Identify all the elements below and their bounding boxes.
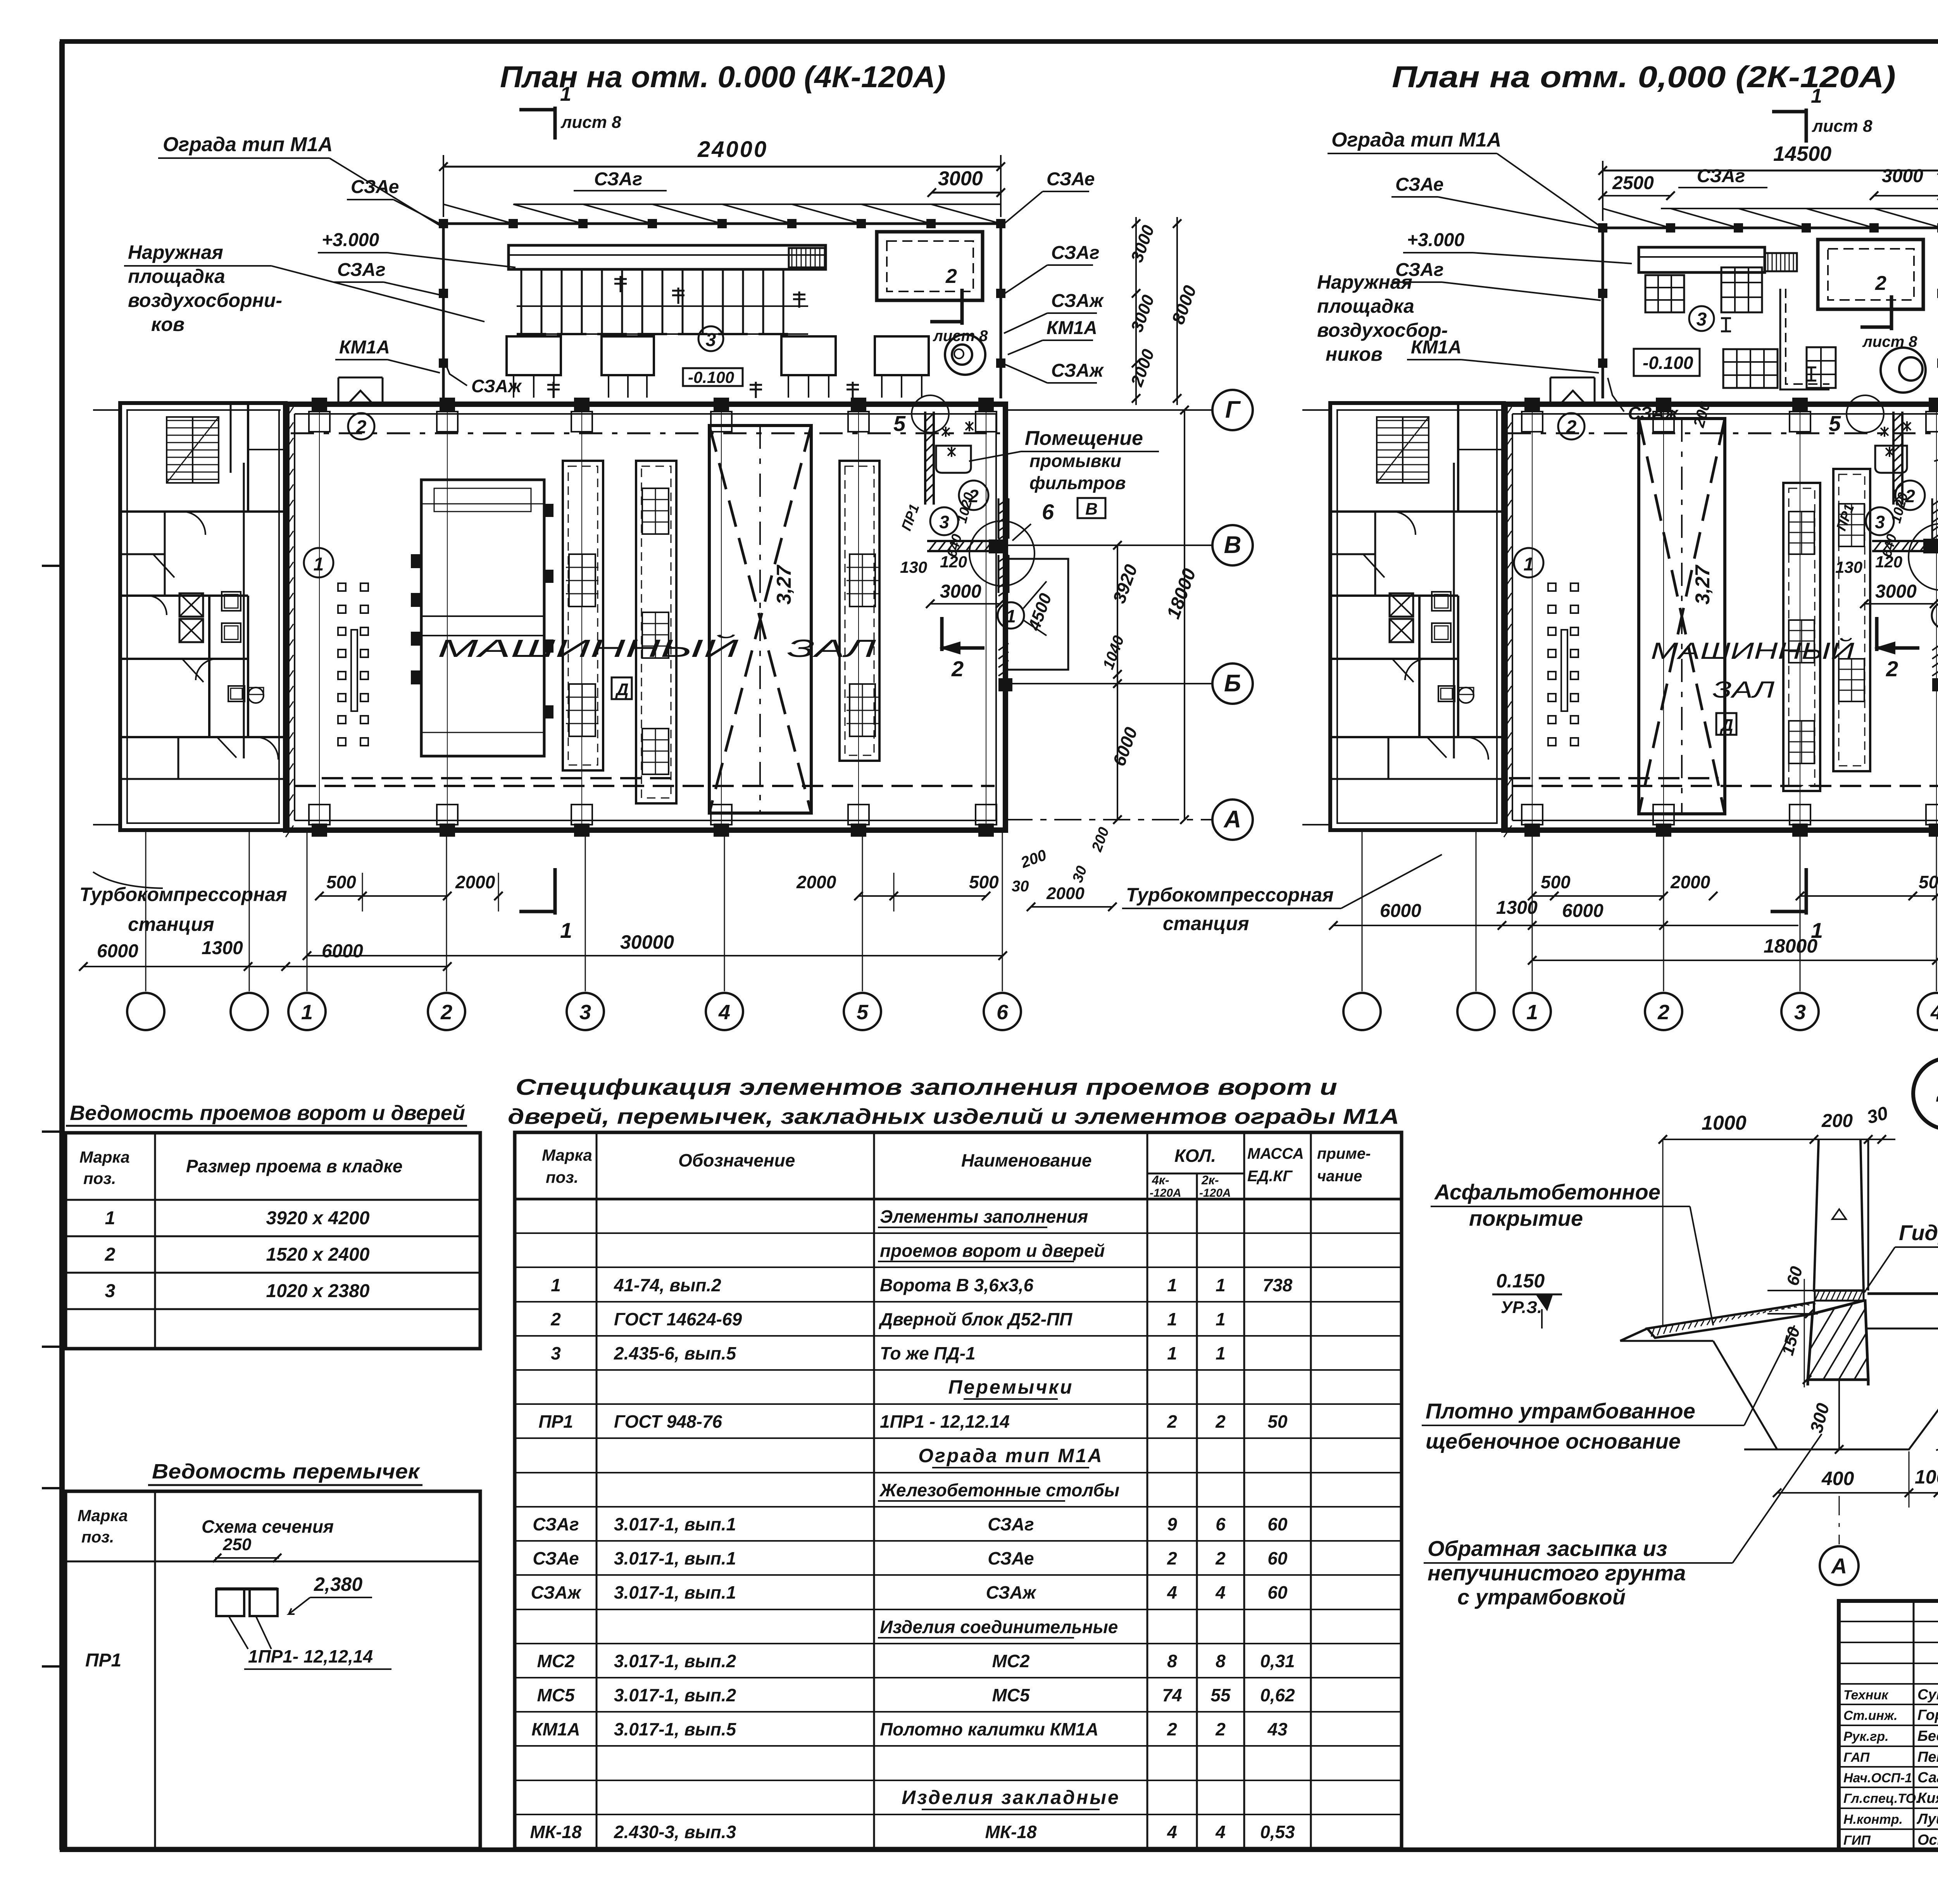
svg-text:А: А [1831,1554,1847,1578]
pilaster at B axis lower [998,678,1012,691]
svg-text:41-74, вып.2: 41-74, вып.2 [614,1275,721,1295]
fixtures plan2 [1432,592,1451,611]
svg-text:Наружная: Наружная [128,241,223,263]
svg-text:СЗАг: СЗАг [337,260,386,280]
axis letters [1005,409,1212,411]
letter D box [612,677,632,699]
svg-text:Изделия закладные: Изделия закладные [902,1787,1120,1808]
svg-text:3: 3 [105,1281,116,1301]
svg-text:КМ1А: КМ1А [339,337,390,358]
annex building plan2 [1330,403,1504,830]
annex stair [167,417,219,483]
bottom dim 30000 [307,955,1003,956]
svg-text:А: А [1223,806,1241,833]
svg-text:43: 43 [1267,1719,1288,1739]
svg-text:МС5: МС5 [992,1685,1030,1705]
turbo unit big block [421,480,544,756]
crossed reserve area [709,426,811,813]
svg-text:1: 1 [1524,554,1534,575]
svg-text:2: 2 [1215,1719,1226,1739]
svg-text:1: 1 [560,918,572,943]
vent boxes plan2 [1390,593,1413,617]
svg-text:1020 х 2380: 1020 х 2380 [266,1281,370,1301]
svg-text:400: 400 [1821,1468,1854,1489]
svg-text:4: 4 [1215,1582,1226,1602]
svg-text:2: 2 [1167,1548,1177,1568]
svg-text:60: 60 [1267,1582,1288,1602]
svg-text:3,27: 3,27 [1691,565,1714,605]
section mark 1 bottom plan2 [1805,868,1808,915]
svg-text:4: 4 [1167,1822,1177,1842]
svg-text:Помещение: Помещение [1025,427,1143,450]
svg-text:2: 2 [1215,1548,1226,1568]
svg-text:Ведомость перемычек: Ведомость перемычек [152,1460,421,1483]
svg-text:Размер проема в кладке: Размер проема в кладке [186,1156,402,1176]
svg-text:3: 3 [1794,1001,1806,1024]
axis circles bottom [145,830,147,991]
dim 3000 top [932,192,1001,194]
annex door arcs plan2 [1392,512,1416,535]
svg-text:Железобетонные столбы: Железобетонные столбы [879,1480,1119,1500]
anchor symbols [620,276,622,292]
svg-text:6: 6 [1042,500,1054,524]
fence posts and braces [514,203,1001,205]
svg-text:24000: 24000 [697,137,768,162]
svg-text:Изделия соединительные: Изделия соединительные [880,1617,1118,1637]
svg-text:6000: 6000 [322,941,363,961]
svg-text:6000: 6000 [97,941,138,961]
svg-text:3.017-1, вып.5: 3.017-1, вып.5 [614,1719,737,1739]
room markers plan2 [1558,413,1585,439]
svg-text:2: 2 [105,1244,116,1265]
small anchor chains [338,583,346,591]
svg-text:-120А: -120А [1199,1187,1231,1199]
sanitary fixtures [222,592,241,611]
detail callout 6 [969,521,1035,586]
svg-text:Гл.спец.ТО.: Гл.спец.ТО. [1843,1791,1919,1806]
svg-text:60: 60 [1267,1514,1288,1534]
section mark 2 top plan2 [1890,295,1893,330]
svg-text:4: 4 [1215,1822,1226,1842]
svg-text:3,27: 3,27 [773,565,795,605]
waffle grids plan2 [1645,275,1684,312]
svg-text:130: 130 [1835,558,1862,576]
svg-text:1: 1 [1167,1343,1177,1363]
entrance porch plan1 [338,377,340,404]
washing bottom wall plan2 [1872,540,1924,542]
svg-text:Перемычки: Перемычки [948,1376,1074,1398]
svg-text:3000: 3000 [1875,581,1917,602]
svg-text:6000: 6000 [1380,901,1421,921]
svg-text:5: 5 [893,411,906,436]
svg-text:1: 1 [314,554,324,575]
unit strip B [636,461,676,803]
svg-text:1: 1 [1811,918,1823,943]
svg-text:СЗАе: СЗАе [988,1548,1034,1568]
svg-text:станция: станция [1163,913,1249,934]
svg-text:-120А: -120А [1150,1187,1181,1199]
ramp d4 [1647,1302,1814,1338]
foundation block d4 [1808,1301,1868,1380]
table vedomost proemov [66,1101,480,1849]
detail 4 bubble [1913,1058,1938,1129]
svg-text:СЗАе: СЗАе [533,1548,579,1568]
svg-text:непучинистого грунта: непучинистого грунта [1428,1561,1686,1585]
right dims fence [1135,217,1137,405]
svg-text:Наружная: Наружная [1317,271,1412,293]
pos circle 1 plan2 [1932,602,1938,629]
svg-text:СЗАг: СЗАг [594,169,643,190]
svg-text:МК-18: МК-18 [985,1822,1036,1842]
ladder grid plan2 [1765,253,1797,271]
wall above d4 [1814,1139,1864,1291]
svg-text:Схема сечения: Схема сечения [202,1516,334,1537]
door swing slashes [153,554,174,577]
svg-text:2000: 2000 [455,872,495,892]
area marker 3 plan2 [1689,306,1714,331]
svg-text:Спецификация элементов заполн: Спецификация элементов заполнения проемо… [516,1075,1337,1100]
axis A circle d4 [1839,1496,1840,1544]
svg-text:Ограда тип М1А: Ограда тип М1А [918,1445,1103,1466]
svg-text:Горская: Горская [1917,1707,1938,1723]
svg-text:воздухосборни-: воздухосборни- [128,289,282,311]
svg-text:2: 2 [1657,1001,1669,1024]
svg-text:проемов ворот и дверей: проемов ворот и дверей [880,1241,1105,1261]
svg-text:Асфальтобетонное: Асфальтобетонное [1434,1180,1660,1204]
svg-text:МС2: МС2 [537,1651,575,1671]
svg-text:МС5: МС5 [537,1685,575,1705]
svg-text:Д: Д [615,680,629,699]
svg-text:4: 4 [718,1001,730,1024]
svg-text:Ст.инж.: Ст.инж. [1843,1708,1898,1723]
svg-text:50: 50 [1267,1411,1288,1432]
svg-text:2000: 2000 [796,872,836,892]
svg-text:6: 6 [997,1001,1009,1024]
svg-text:дверей, перемычек, закладных и: дверей, перемычек, закладных изделий и э… [508,1104,1399,1129]
svg-text:В: В [1224,532,1241,558]
svg-text:покрытие: покрытие [1469,1206,1583,1230]
svg-text:0,62: 0,62 [1260,1685,1295,1705]
svg-text:фильтров: фильтров [1029,473,1126,493]
svg-text:8: 8 [1216,1651,1226,1671]
manhole [945,334,985,375]
svg-text:2500: 2500 [1612,173,1654,193]
svg-text:Обозначение: Обозначение [678,1150,795,1170]
svg-text:2: 2 [1215,1411,1226,1432]
svg-text:3: 3 [551,1343,561,1363]
svg-text:55: 55 [1210,1685,1231,1705]
platform ladder grid [789,248,826,267]
svg-text:МАССА: МАССА [1247,1145,1304,1162]
bottom dims row1 [319,895,447,897]
svg-text:площадка: площадка [128,265,225,287]
fence corner room [877,232,983,300]
svg-text:2: 2 [1875,272,1886,295]
svg-text:Обратная засыпка из: Обратная засыпка из [1428,1536,1667,1561]
detail callout 6 plan2 [1909,524,1938,590]
svg-text:120: 120 [1875,553,1902,571]
hall axis dashed plan2 [1508,432,1938,434]
air collector platform plan2 [1639,247,1765,272]
svg-text:3920 х 4200: 3920 х 4200 [266,1208,370,1229]
svg-text:Элементы заполнения: Элементы заполнения [880,1206,1088,1227]
unit strip C [840,461,879,761]
detail callout 5 plan2 [1847,395,1884,432]
annex door arcs [182,512,205,535]
shared wall plan2 [1505,404,1508,830]
letter D box plan2 [1716,713,1736,735]
svg-text:2: 2 [1167,1719,1177,1739]
svg-text:Осташевский: Осташевский [1917,1832,1938,1848]
L dashed wall plan2 [1780,289,1829,389]
svg-text:Ворота В 3,6х3,6: Ворота В 3,6х3,6 [880,1275,1034,1295]
svg-text:МС2: МС2 [992,1651,1030,1671]
dim 14500 [1603,170,1938,172]
svg-text:250: 250 [222,1535,252,1554]
boxed B mark [1078,498,1105,518]
svg-text:ГИП: ГИП [1843,1833,1871,1848]
svg-text:Наименование: Наименование [961,1150,1092,1170]
svg-text:СЗАж: СЗАж [531,1582,582,1602]
svg-text:60: 60 [1267,1548,1288,1568]
plan2 top section mark 1 [1805,109,1808,143]
level -0.100 plan2 [1634,349,1700,376]
svg-text:1: 1 [1216,1275,1226,1295]
pilaster B axis plan2 [1932,498,1938,505]
svg-text:6: 6 [1216,1514,1226,1534]
specification table [508,1075,1402,1849]
svg-text:2: 2 [951,656,964,681]
svg-text:2.430-3, вып.3: 2.430-3, вып.3 [614,1822,736,1842]
washing wall plan2 [1892,412,1895,505]
svg-text:Турбокомпрессорная: Турбокомпрессорная [79,884,287,905]
svg-text:лист 8: лист 8 [560,113,621,132]
title block [1839,1601,1938,1850]
svg-text:18000: 18000 [1764,935,1817,957]
svg-text:поз.: поз. [81,1528,114,1546]
svg-text:2,380: 2,380 [314,1573,362,1595]
entrance porch plan2 [1550,377,1552,404]
svg-text:1: 1 [1526,1001,1538,1024]
fold marks [42,565,62,567]
svg-text:-0.100: -0.100 [1643,353,1693,373]
svg-text:30: 30 [1012,878,1029,895]
svg-text:Н.контр.: Н.контр. [1843,1812,1903,1827]
equipment bases [507,336,561,375]
svg-text:2000: 2000 [1670,872,1710,892]
svg-text:СЗАж: СЗАж [986,1582,1037,1602]
svg-text:То же ПД-1: То же ПД-1 [880,1343,976,1363]
svg-text:Полотно калитки КМ1А: Полотно калитки КМ1А [880,1719,1098,1739]
svg-text:1: 1 [560,83,571,105]
svg-text:МК-18: МК-18 [530,1822,581,1842]
svg-text:Турбокомпрессорная: Турбокомпрессорная [1126,884,1334,906]
svg-text:СЗАе: СЗАе [1047,169,1095,190]
svg-text:+3.000: +3.000 [322,230,379,250]
svg-text:с утрамбовкой: с утрамбовкой [1457,1585,1626,1609]
svg-text:1: 1 [301,1001,313,1024]
svg-text:2: 2 [1886,656,1898,681]
svg-text:+3.000: +3.000 [1407,230,1464,250]
svg-text:3: 3 [706,330,716,350]
pos circles 2 3 near washing [959,481,988,510]
svg-text:8: 8 [1167,1651,1177,1671]
plan1 top section mark 1 [553,107,557,140]
floor plan 2 (2K-120A) [1122,60,1938,1030]
svg-text:Ведомость проемов ворот и двер: Ведомость проемов ворот и дверей [70,1101,465,1125]
svg-text:ГОСТ 948-76: ГОСТ 948-76 [614,1411,722,1432]
svg-text:2: 2 [550,1309,561,1329]
svg-text:3.017-1, вып.2: 3.017-1, вып.2 [614,1685,736,1705]
svg-text:ЗАЛ: ЗАЛ [787,634,876,662]
shared wall annex/hall [287,404,290,830]
svg-text:3000: 3000 [940,581,981,602]
svg-text:СЗАж: СЗАж [1628,403,1679,423]
svg-text:Рук.гр.: Рук.гр. [1843,1729,1889,1744]
annex corridor plan2 [1453,463,1455,758]
svg-text:лист 8: лист 8 [933,327,988,345]
svg-text:ЗАЛ: ЗАЛ [1712,677,1775,703]
area marker 3 [698,326,723,351]
section mark 1 bottom [553,868,557,915]
door slashes plan2 [1363,554,1385,577]
svg-text:4: 4 [1167,1582,1177,1602]
svg-text:лист 8: лист 8 [1812,117,1872,136]
svg-text:3000: 3000 [938,167,983,190]
svg-text:500: 500 [326,872,356,892]
svg-text:1: 1 [1006,606,1016,626]
floor slab line d4 [1867,1292,1938,1295]
svg-text:КМ1А: КМ1А [1047,318,1097,338]
machine hall outline [286,404,1005,830]
svg-text:100: 100 [1915,1466,1938,1488]
svg-text:КМ1А: КМ1А [1411,337,1462,358]
small equipment chains plan2 [1548,583,1556,591]
vent boxes crossed [179,593,203,617]
svg-text:500: 500 [969,872,999,892]
svg-text:Суман: Суман [1917,1687,1938,1703]
svg-text:Техник: Техник [1843,1688,1889,1702]
svg-text:14500: 14500 [1773,142,1831,165]
svg-text:СЗАе: СЗАе [351,177,399,197]
svg-text:ников: ников [1326,343,1383,365]
detail 4 [1422,1058,1938,1609]
detail callout 5 [912,395,949,432]
svg-text:МАШИННЫЙ: МАШИННЫЙ [438,634,738,662]
svg-text:1000: 1000 [1702,1112,1747,1134]
svg-text:3000: 3000 [1882,166,1923,186]
svg-text:СЗАе: СЗАе [1395,174,1443,195]
svg-text:ГАП: ГАП [1843,1750,1870,1765]
svg-text:2000: 2000 [1046,884,1085,903]
annex stair plan2 [1377,417,1429,483]
svg-text:СЗАж: СЗАж [471,376,522,396]
svg-text:КОЛ.: КОЛ. [1174,1146,1216,1166]
svg-text:Гидроизоляция: Гидроизоляция [1899,1220,1938,1245]
svg-text:3.017-1, вып.1: 3.017-1, вып.1 [614,1514,736,1534]
svg-text:УР.З.: УР.З. [1501,1298,1542,1317]
svg-text:поз.: поз. [83,1169,116,1187]
room marker 1 [304,548,333,577]
svg-text:0,53: 0,53 [1260,1822,1295,1842]
unit strip A plan2 [1783,483,1820,791]
I anchors plan2 [1725,318,1727,331]
svg-text:щебеночное основание: щебеночное основание [1426,1429,1681,1453]
svg-text:станция: станция [128,913,214,935]
annex building outline [120,403,286,830]
svg-text:1: 1 [1216,1343,1226,1363]
section mark 2 lower plan2 [1875,617,1879,651]
svg-text:3: 3 [1697,309,1707,330]
svg-text:2: 2 [1167,1411,1177,1432]
svg-text:СЗАг: СЗАг [533,1514,579,1534]
dim 2500 3000 plan2 [1603,195,1671,196]
svg-text:4: 4 [1930,1001,1938,1024]
svg-text:СЗАж: СЗАж [1051,291,1104,311]
svg-text:лист 8: лист 8 [1862,333,1917,350]
level -0.100 [683,368,743,386]
pos circle 1 gate [998,602,1024,629]
svg-text:74: 74 [1162,1685,1182,1705]
svg-text:1520 х 2400: 1520 х 2400 [266,1244,370,1265]
room marker 2 [348,413,374,439]
svg-text:Нач.ОСП-1: Нач.ОСП-1 [1843,1771,1912,1785]
svg-text:Д: Д [1719,716,1733,735]
svg-text:Луценко: Луценко [1916,1811,1938,1827]
unit strip B plan2 [1833,469,1870,771]
svg-text:3.017-1, вып.1: 3.017-1, вып.1 [614,1582,736,1602]
manhole plan2 [1881,348,1926,393]
svg-text:5: 5 [1829,411,1841,436]
svg-text:1: 1 [1167,1275,1177,1295]
annex interior walls [120,510,286,513]
svg-text:2: 2 [356,417,367,438]
svg-text:площадка: площадка [1317,295,1414,317]
machine hall plan2 [1504,404,1938,830]
svg-text:200: 200 [1821,1111,1853,1131]
svg-text:3.017-1, вып.2: 3.017-1, вып.2 [614,1651,736,1671]
svg-text:Марка: Марка [78,1506,128,1525]
svg-text:-0.100: -0.100 [688,368,734,386]
svg-text:30000: 30000 [620,931,674,953]
svg-text:120: 120 [940,553,967,571]
washing room bottom wall [927,540,991,542]
svg-text:3.017-1, вып.1: 3.017-1, вып.1 [614,1548,736,1568]
svg-text:ЕД.КГ: ЕД.КГ [1247,1168,1293,1185]
svg-text:чание: чание [1317,1168,1362,1185]
svg-text:ПР1: ПР1 [538,1411,573,1432]
svg-text:ПР1: ПР1 [85,1650,121,1671]
svg-text:6000: 6000 [1562,901,1604,921]
svg-text:1ПР1 - 12,12.14: 1ПР1 - 12,12.14 [880,1411,1010,1432]
svg-text:2.435-6, вып.5: 2.435-6, вып.5 [614,1343,737,1363]
svg-text:СЗАг: СЗАг [1051,243,1100,263]
svg-text:МАШИННЫЙ: МАШИННЫЙ [1651,638,1854,664]
annex top corridor [243,463,245,758]
svg-text:СЗАг: СЗАг [1697,166,1745,186]
crossed reserve area plan2 [1639,419,1725,814]
right dims building [1117,545,1118,820]
vertical axis lines plan2 [1532,410,1533,825]
svg-text:500: 500 [1541,872,1571,892]
svg-text:Г: Г [1225,396,1241,423]
dim 300 [1838,1380,1840,1449]
svg-text:ков: ков [151,314,184,335]
svg-text:КМ1А: КМ1А [531,1719,580,1739]
svg-text:СЗАж: СЗАж [1051,360,1104,381]
svg-text:5: 5 [857,1001,869,1024]
pos circles 2 3 plan2 [1895,481,1925,510]
